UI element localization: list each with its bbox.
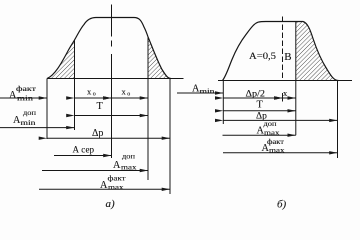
svg-text:T: T [257, 100, 264, 111]
svg-text:Δр: Δр [92, 128, 103, 139]
dim A fakt min a [0, 97, 47, 99]
dim x0 left [75, 97, 112, 99]
svg-text:доп: доп [264, 120, 277, 128]
svg-text:А сер: А сер [73, 145, 95, 155]
svg-text:а): а) [106, 198, 116, 210]
dim A dop min a [0, 127, 75, 129]
svg-text:x: x [122, 87, 127, 97]
svg-text:o: o [93, 92, 96, 98]
vertical A dop max b [295, 22, 297, 136]
svg-text:A: A [113, 160, 121, 171]
right hatch area a [148, 37, 171, 79]
dim A dop max b [223, 134, 296, 136]
baseline a [47, 78, 184, 80]
dim A ser a [54, 155, 112, 157]
svg-text:В: В [284, 51, 291, 63]
svg-text:max: max [121, 163, 137, 171]
svg-text:max: max [264, 129, 280, 137]
dim delta p a [47, 137, 170, 139]
svg-text:min: min [21, 119, 37, 127]
left hatch area a [47, 40, 75, 79]
svg-text:min: min [200, 87, 216, 95]
vertical A fakt max b [337, 81, 339, 159]
vertical x dim b [282, 93, 284, 102]
svg-text:x: x [87, 87, 92, 97]
vertical A dop min a [74, 40, 76, 130]
svg-text:факт: факт [267, 138, 284, 146]
dim delta p b [223, 119, 337, 121]
dim x b [283, 97, 296, 99]
dim delta p/2 b [223, 97, 282, 99]
distribution curve b [223, 22, 339, 81]
svg-text:факт: факт [108, 175, 126, 183]
vertical A fakt max a [169, 79, 171, 195]
distribution curve a [47, 18, 171, 79]
svg-text:Δр/2: Δр/2 [246, 90, 266, 100]
center axis a (dash-dot) [111, 5, 113, 159]
svg-text:min: min [17, 95, 34, 103]
dim T b [223, 110, 295, 112]
svg-text:T: T [97, 101, 104, 112]
dim A min b [177, 92, 223, 94]
vertical A min b [222, 81, 224, 125]
svg-text:max: max [269, 146, 285, 154]
svg-text:max: max [108, 184, 124, 192]
dim x0 right [112, 97, 149, 99]
B dashed line b [282, 17, 284, 81]
dim T a [75, 115, 149, 117]
svg-text:доп: доп [23, 109, 36, 117]
dim A fakt max b [223, 152, 338, 154]
hatch area b [296, 22, 339, 81]
vertical A dop max a [147, 37, 149, 180]
svg-text:доп: доп [122, 152, 135, 160]
dim A dop max a [42, 170, 148, 172]
svg-text:A=0,5: A=0,5 [249, 52, 276, 62]
svg-text:o: o [127, 92, 130, 98]
svg-text:факт: факт [16, 85, 36, 93]
svg-text:б): б) [277, 199, 287, 211]
vertical A fakt min a [46, 79, 48, 140]
baseline b [218, 80, 352, 82]
svg-text:x: x [283, 88, 288, 98]
dim A fakt max a [39, 188, 170, 190]
